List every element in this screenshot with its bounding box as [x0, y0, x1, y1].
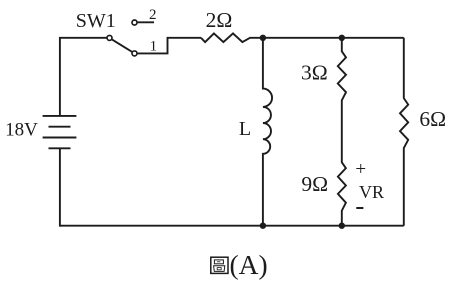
svg-text:L: L — [239, 118, 251, 140]
svg-text:SW1: SW1 — [76, 10, 116, 32]
svg-text:2Ω: 2Ω — [206, 8, 233, 32]
svg-text:3Ω: 3Ω — [301, 60, 328, 84]
svg-text:18V: 18V — [5, 119, 38, 140]
svg-text:6Ω: 6Ω — [419, 107, 446, 131]
svg-text:+: + — [355, 159, 366, 180]
svg-text:(A): (A) — [230, 249, 268, 280]
svg-text:1: 1 — [150, 39, 158, 55]
svg-text:9Ω: 9Ω — [301, 172, 328, 196]
svg-text:2: 2 — [149, 7, 157, 23]
svg-text:VR: VR — [359, 182, 384, 202]
